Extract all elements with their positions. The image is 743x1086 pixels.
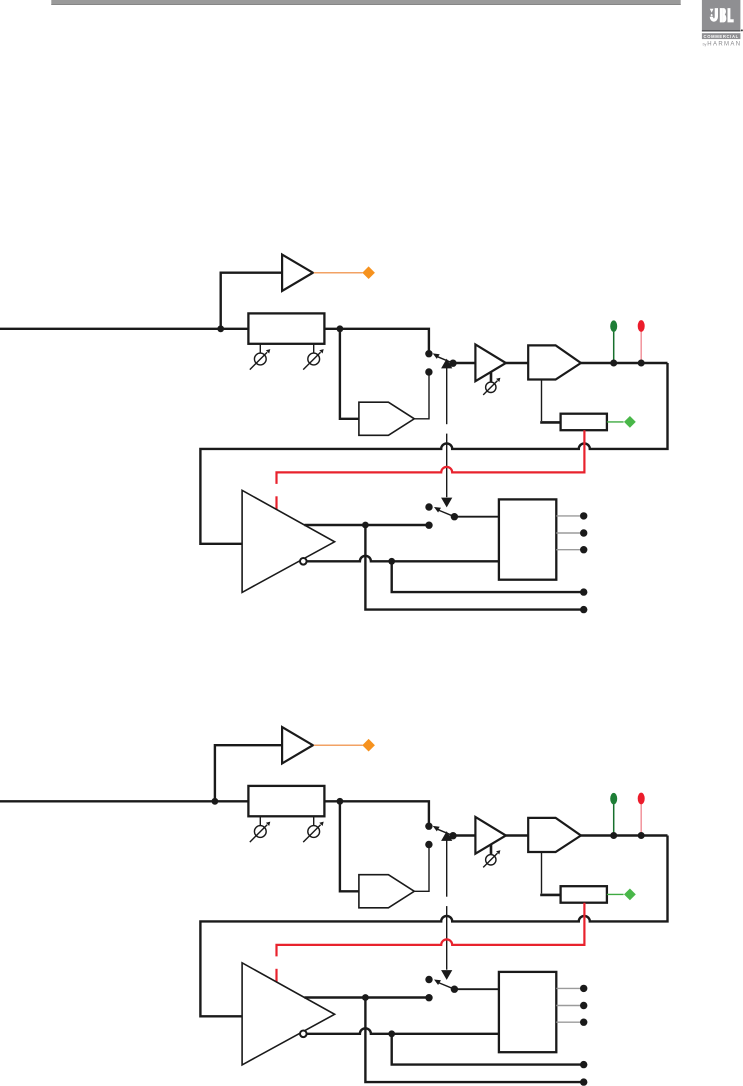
- switch S1.1 contact a (direct): [425, 350, 432, 357]
- op-amp U2.2 level amp: [475, 817, 506, 854]
- node J2.3 green LED tap: [610, 832, 617, 839]
- pot P1.3 stub: [490, 372, 493, 382]
- JBL logo letter L: [728, 8, 734, 22]
- wire W1.21 relay output 2 (gray): [556, 532, 580, 534]
- switch S2.1 contact a (direct): [425, 823, 432, 830]
- pot P1.1 stub: [259, 344, 261, 353]
- block A1.2 filter/processing block: [359, 402, 414, 435]
- node D1.1 direct output port (orange diamond): [362, 266, 375, 279]
- pot P1.1 trim control: [254, 353, 266, 365]
- wire W2.10 feedback loop to power amp (with crossover hops): [200, 836, 667, 1017]
- pot P2.2 trim control: [308, 826, 320, 838]
- node J1.3 green LED tap: [610, 360, 617, 367]
- wire W1.6 switch control link (arrowed both ends): [441, 359, 452, 369]
- switch S1.1 arm: [438, 357, 453, 363]
- wire W2.22 relay output 3 (gray): [556, 1021, 580, 1023]
- node D2.2 status port (green diamond): [624, 889, 636, 901]
- wire W2.3 orange line to direct output: [314, 744, 363, 746]
- svg-text:COMMERCIAL: COMMERCIAL: [704, 34, 739, 39]
- pot P2.3 stub: [490, 844, 493, 854]
- wire W2.20 relay output 1 (gray): [556, 987, 580, 989]
- wire W1.1 input line: [0, 329, 429, 352]
- wire W1.18 - branch down to terminal: [392, 561, 584, 592]
- block A1.3 power amp / limiter: [528, 345, 581, 379]
- channel 2 block diagram: [0, 727, 668, 1086]
- node J1.5 + output junction: [362, 522, 369, 529]
- node T1.3 output terminal: [580, 546, 587, 553]
- registered trademark dot: [741, 29, 743, 31]
- header rule bar: [51, 0, 680, 5]
- wire W2.18 - branch down to terminal: [392, 1034, 584, 1065]
- switch S1.1 common pole: [449, 360, 456, 367]
- LED DS2.2 stem (red): [640, 804, 642, 835]
- wire W1.7 switch pole to level amp: [453, 362, 475, 364]
- svg-text:HARMAN: HARMAN: [707, 42, 741, 48]
- op-amp U1.2 level amp: [475, 344, 506, 381]
- switch S1.2 arm: [439, 510, 454, 516]
- wire W2.5 filter output up to switch contact: [414, 845, 429, 892]
- wire W1.4 branch down to filter block: [340, 329, 359, 419]
- node T2.4 output terminal: [580, 1061, 587, 1068]
- wire W2.19 switch pole to relay block: [454, 988, 499, 990]
- wire W1.3 orange line to direct output: [314, 272, 363, 274]
- block A1.5 output relay block: [499, 499, 556, 579]
- wire W2.1 input line: [0, 801, 429, 824]
- node J1.4 red LED tap: [638, 360, 645, 367]
- switch S1.1 contact b (filtered): [425, 368, 432, 375]
- pot P2.1 stub: [259, 816, 261, 825]
- wire W2.21 relay output 2 (gray): [556, 1005, 580, 1007]
- JBL logo square: [702, 0, 741, 31]
- wire W1.19 switch pole to relay block: [454, 516, 499, 518]
- pot P1.2 trim control: [308, 353, 320, 365]
- wire W1.16 power amp - output (with hop): [307, 556, 499, 562]
- switch S2.2 common pole: [451, 986, 458, 993]
- svg-text:by: by: [703, 42, 707, 46]
- block A1.1 input gain/trim block: [248, 313, 324, 343]
- wire W2.15 power amp + output: [304, 996, 429, 998]
- wire W2.11 limiter sense to level block: [541, 852, 543, 894]
- LED DS1.2 stem (red): [640, 332, 642, 363]
- pot P2.1 trim control: [254, 826, 266, 838]
- op-amp U2.3 power amplifier: [242, 963, 335, 1065]
- block A2.2 filter/processing block: [359, 875, 414, 908]
- node J2.2 post-block junction: [337, 798, 344, 805]
- wire W1.9 limiter output: [581, 362, 668, 364]
- wire W1.5 filter output up to switch contact: [414, 372, 429, 419]
- block A2.5 output relay block: [499, 972, 556, 1052]
- JBL logo letter J: [711, 8, 716, 20]
- node T2.5 output terminal: [580, 1078, 587, 1085]
- wire W1.13 red control line to power amp (with hop): [277, 430, 585, 484]
- node T1.1 output terminal: [580, 512, 587, 519]
- op-amp U1.3 power amplifier: [242, 490, 335, 592]
- wire W2.6 switch control link (arrowed both ends): [441, 831, 452, 841]
- LED DS2.2 clip LED (red): [638, 793, 645, 805]
- wire W2.12 green line to status port: [607, 893, 624, 895]
- block A1.4 limit threshold block: [561, 414, 607, 431]
- node J2.5 + output junction: [362, 994, 369, 1001]
- wire W1.10 feedback loop to power amp (with crossover hops): [200, 363, 667, 544]
- node T1.2 output terminal: [580, 529, 587, 536]
- node J1.6 - output junction: [388, 558, 395, 565]
- JBL logo letter B: [720, 8, 727, 22]
- switch S2.2 contact a (open): [425, 976, 432, 983]
- switch S2.1 arm: [438, 829, 453, 835]
- pot P2.3 level control: [486, 855, 496, 865]
- node J1.1 input branch junction: [217, 325, 224, 332]
- wire W2.4 branch down to filter block: [340, 801, 359, 891]
- LED DS2.1 signal LED (green): [610, 793, 617, 805]
- pot P1.3 level control: [486, 382, 496, 392]
- LED DS1.1 signal LED (green): [610, 320, 617, 332]
- node J2.1 input branch junction: [212, 798, 219, 805]
- switch S2.2 arm: [439, 983, 454, 989]
- node T2.2 output terminal: [580, 1002, 587, 1009]
- wire W1.14 red control line dashed tail: [275, 496, 277, 509]
- wire W1.15 power amp + output: [304, 524, 429, 526]
- JBL logo exclamation mark: [710, 9, 714, 17]
- wire W1.12 green line to status port: [607, 421, 624, 423]
- wire W2.8 amp to limiter: [506, 834, 528, 836]
- node J2.4 red LED tap: [638, 832, 645, 839]
- node J1.2 post-block junction: [337, 325, 344, 332]
- LED DS2.1 stem (green): [613, 804, 615, 835]
- block A2.4 limit threshold block: [561, 886, 607, 903]
- wire W1.11 limiter sense to level block: [541, 380, 543, 422]
- switch S2.1 common pole: [449, 832, 456, 839]
- node T2.1 output terminal: [580, 985, 587, 992]
- switch S2.1 contact b (filtered): [425, 841, 432, 848]
- wire W2.14 red control line dashed tail: [275, 969, 277, 982]
- wire W2.9 limiter output: [581, 834, 668, 836]
- LED DS1.1 stem (green): [613, 332, 615, 363]
- node T1.4 output terminal: [580, 588, 587, 595]
- switch S1.2 contact a (open): [425, 503, 432, 510]
- wire W2.16 power amp - output (with hop): [307, 1028, 499, 1034]
- node J2.6 - output junction: [388, 1030, 395, 1037]
- wire W2.2 branch to direct-out buffer: [215, 745, 283, 801]
- pot P1.2 stub: [313, 344, 315, 353]
- wire W1.22 relay output 3 (gray): [556, 549, 580, 551]
- switch S2.2 contact b (amp +): [425, 994, 432, 1001]
- wire W1.8 amp to limiter: [506, 362, 528, 364]
- op-amp U1.1 direct-out buffer: [282, 255, 313, 291]
- LED DS1.2 clip LED (red): [638, 320, 645, 332]
- block A2.1 input gain/trim block: [248, 786, 324, 816]
- switch S1.2 contact b (amp +): [425, 522, 432, 529]
- COMMERCIAL banner: [702, 33, 741, 39]
- node B2.1 inverting bubble: [300, 1031, 307, 1038]
- node D1.2 status port (green diamond): [624, 416, 636, 428]
- node T1.5 output terminal: [580, 606, 587, 613]
- node B1.1 inverting bubble: [300, 558, 307, 565]
- wire W1.2 branch to direct-out buffer: [221, 273, 283, 329]
- pot P2.2 stub: [313, 816, 315, 825]
- node D2.1 direct output port (orange diamond): [362, 739, 375, 752]
- wire W1.17 + branch down to terminal: [365, 525, 583, 610]
- wire W2.7 switch pole to level amp: [453, 834, 475, 836]
- op-amp U2.1 direct-out buffer: [282, 727, 313, 763]
- block A2.3 power amp / limiter: [528, 818, 581, 852]
- channel 1 block diagram: [0, 255, 668, 614]
- node T2.3 output terminal: [580, 1019, 587, 1026]
- wire W1.20 relay output 1 (gray): [556, 515, 580, 517]
- wire W2.13 red control line to power amp (with hop): [277, 903, 585, 957]
- switch S1.2 common pole: [451, 513, 458, 520]
- wire W2.17 + branch down to terminal: [365, 998, 583, 1083]
